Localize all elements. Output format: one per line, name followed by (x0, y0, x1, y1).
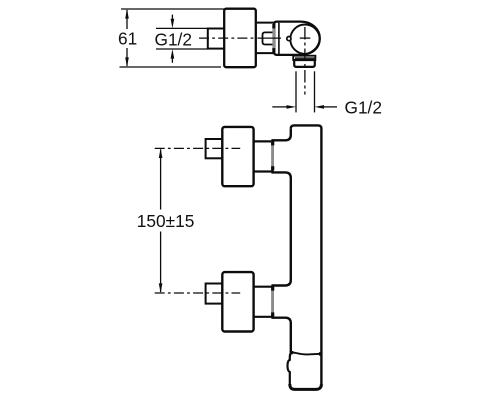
dimension 61 extension line bottom (120, 66, 222, 68)
dimension G1/2 inlet extension line bottom (156, 48, 208, 50)
svg-text:61: 61 (118, 29, 137, 49)
dimension 150±15 line and arrows (159, 148, 163, 293)
svg-text:G1/2: G1/2 (345, 97, 382, 117)
svg-text:150±15: 150±15 (137, 211, 195, 231)
outlet thread band side view (293, 56, 315, 60)
bottom handle tip front view (206, 284, 223, 304)
bottom handle centerline (155, 292, 241, 294)
neck side view (256, 23, 274, 53)
bottom handle knob front view (222, 272, 253, 331)
inlet connector side view (208, 29, 225, 49)
top handle centerline (155, 147, 241, 149)
outlet thread hatch (295, 57, 315, 59)
outlet G1/2 extension lines (296, 71, 315, 112)
body seam line side view (278, 23, 280, 54)
dimension G1/2 inlet arrows (171, 15, 175, 63)
outlet G1/2 dimension line and arrows (272, 105, 337, 109)
top handle neck lines (253, 141, 271, 171)
valve body side view (274, 22, 320, 55)
shower outlet junction marks (290, 351, 323, 356)
body front view right and top (291, 125, 322, 386)
dimension 61 line and arrows (125, 9, 129, 67)
lens detail at circle left (287, 37, 291, 41)
body front view left outline with bosses (273, 129, 291, 352)
top boss joint gray bar (271, 141, 274, 170)
dimension 61 extension line top (121, 8, 225, 10)
cap circle side view (290, 25, 319, 54)
vertical centerline side view (304, 27, 306, 95)
cartridge detail side view (263, 32, 274, 44)
outlet nut side view (294, 60, 315, 67)
horizontal centerline side view (199, 37, 310, 39)
svg-text:G1/2: G1/2 (155, 29, 192, 49)
shower outlet left profile (288, 352, 292, 384)
handle knob side view (224, 9, 256, 67)
shower outlet front view top line (291, 352, 321, 354)
top handle knob front view (222, 127, 253, 186)
joint marks side view (272, 24, 275, 52)
top handle tip front view (206, 139, 223, 158)
dimension G1/2 inlet extension line top (156, 27, 208, 29)
shower outlet bottom edge (290, 384, 322, 389)
bottom boss joint gray bar (271, 287, 274, 317)
bottom handle neck lines (253, 287, 271, 317)
